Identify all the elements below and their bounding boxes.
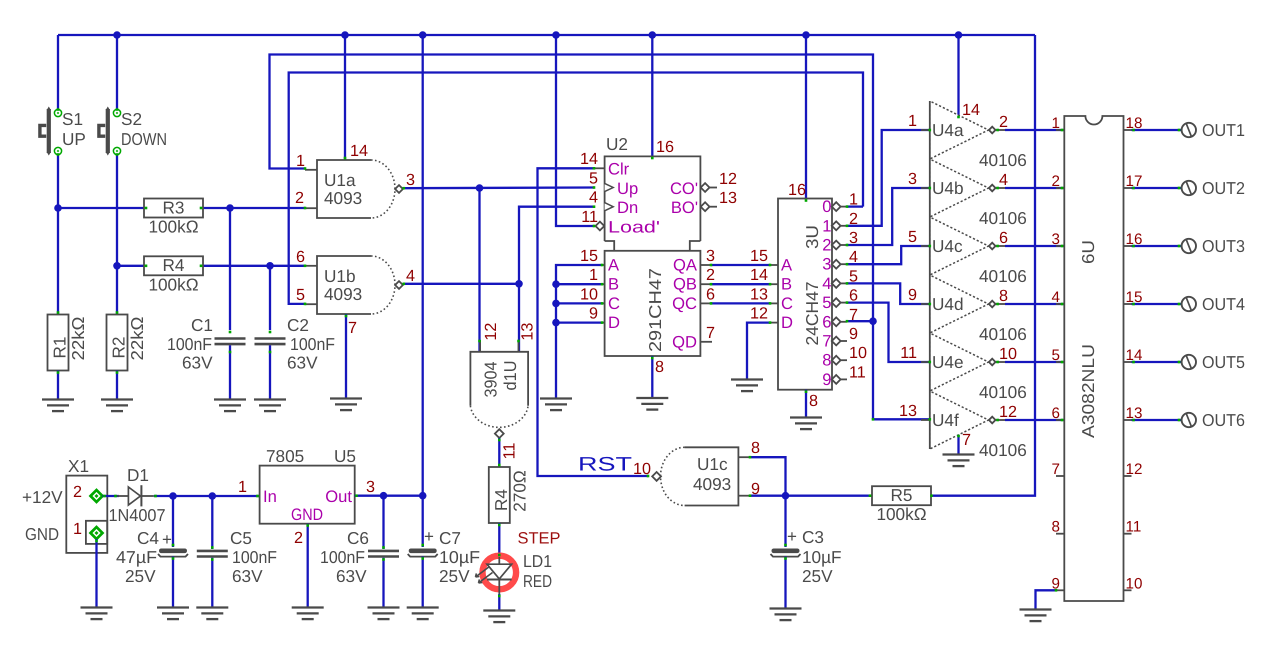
nand gate U1b [305,256,403,314]
inverter U4e 40106 [900,333,1027,402]
svg-text:+: + [162,530,172,549]
node rail junction +5V feed [419,31,427,39]
output pad OUT2 [1132,178,1246,198]
wire QC to C [711,302,770,304]
node C5 junction [209,492,217,500]
svg-text:14: 14 [350,142,368,160]
inverter U4b 40106 [908,159,1027,228]
svg-text:12: 12 [999,403,1017,421]
svg-text:STEP: STEP [518,530,561,548]
wire U1b out [403,283,519,285]
svg-text:11: 11 [581,208,598,226]
wire U4c out to U6 [1005,245,1064,247]
svg-text:9: 9 [908,286,917,304]
svg-text:8: 8 [999,287,1008,305]
svg-text:A: A [608,256,620,275]
svg-text:100kΩ: 100kΩ [876,504,926,524]
wire Dn riser [519,207,594,352]
svg-text:QC: QC [672,294,697,313]
node U2 C junction [552,300,560,308]
wire U2 pin16 drop [651,35,653,156]
wire U4a pin14 drop [957,35,959,116]
svg-text:100nF: 100nF [232,547,277,567]
svg-text:R1: R1 [50,337,70,359]
wire C6 drop [382,496,384,549]
svg-text:7: 7 [822,332,831,351]
svg-text:8: 8 [809,392,818,410]
svg-text:10: 10 [849,344,867,362]
node C4 junction [169,492,177,500]
output pad OUT1 [1132,120,1246,140]
svg-text:10µF: 10µF [802,547,842,567]
node rail junction U3-16 [802,31,810,39]
wire U1a out to U2 Up [403,186,594,189]
wire U2 D stub [556,321,602,323]
ground LD1 [483,611,515,623]
wire U3 out5 to U4e [847,303,930,362]
wire S2 to R4 row [116,155,118,315]
svg-text:7: 7 [348,319,357,337]
connection ticks [57,108,1181,597]
wire U4e out to U6 [1005,361,1064,363]
wire C7 drop [422,496,424,547]
svg-text:1: 1 [589,266,598,284]
svg-text:C2: C2 [287,315,309,335]
ground C7 [407,608,439,620]
svg-text:U1a: U1a [324,170,356,190]
ground C3 [770,609,802,621]
wire +5V top rail [58,34,1035,36]
svg-text:OUT4: OUT4 [1202,294,1245,314]
svg-text:22kΩ: 22kΩ [127,316,147,360]
svg-text:14: 14 [962,101,980,119]
svg-text:A: A [781,256,793,275]
net label STEP [518,530,561,548]
inverter U4d 40106 [908,275,1027,344]
svg-text:DOWN: DOWN [121,129,167,149]
svg-text:10: 10 [580,286,598,304]
svg-text:UP: UP [62,129,86,149]
svg-text:U4d: U4d [932,294,964,314]
node C6 junction [380,492,388,500]
wire U1d pin12 drop [478,188,480,352]
wire U4f pin7 [957,435,959,454]
svg-text:OUT6: OUT6 [1202,410,1245,430]
svg-text:3: 3 [908,170,917,188]
svg-text:4093: 4093 [324,188,362,208]
svg-text:12: 12 [719,170,737,188]
svg-text:3: 3 [406,171,415,189]
svg-text:C: C [781,294,793,313]
resistor R5 [872,485,931,524]
svg-text:GND: GND [25,524,59,544]
svg-text:3: 3 [366,478,375,496]
svg-text:40106: 40106 [979,324,1027,344]
svg-text:291CH47: 291CH47 [645,268,665,352]
inverter U4f 40106 [899,391,1027,460]
svg-text:63V: 63V [232,566,263,586]
svg-text:B: B [608,275,619,294]
svg-text:C7: C7 [439,528,461,548]
svg-text:3904: 3904 [481,361,501,397]
wire R3 row left [58,207,144,209]
ground U6 pin9 [1020,610,1052,622]
svg-text:Dn: Dn [617,198,638,217]
wire R4 to LD1 [498,523,500,557]
wire S1 to R3 row [57,155,59,315]
svg-text:25V: 25V [802,566,833,586]
svg-text:GND: GND [291,505,323,524]
svg-text:7: 7 [962,431,971,449]
ground U2 ABCD [540,399,572,411]
node rail junction U2-16 [649,31,657,39]
svg-text:16: 16 [656,138,674,156]
wire R1 to ground [57,371,59,400]
svg-text:6: 6 [706,286,715,304]
svg-text:9: 9 [822,370,831,389]
wire U1b pin5 net (line3) [289,73,863,304]
svg-text:4: 4 [999,171,1008,189]
wire U2 C stub [556,302,602,304]
svg-text:7: 7 [1052,461,1060,478]
svg-text:25V: 25V [125,566,156,586]
svg-text:U4a: U4a [932,120,964,140]
resistor R4 270 [489,467,530,523]
wire U4f input [873,418,930,420]
svg-text:R5: R5 [891,485,913,505]
wire X1 to D1 [103,495,120,497]
svg-text:3: 3 [1052,231,1060,248]
regulator U5 7805 [238,446,375,547]
wire U3 out1 to U4a [847,130,930,226]
svg-text:6: 6 [296,248,305,266]
svg-text:5: 5 [822,293,831,312]
svg-text:D1: D1 [127,465,149,485]
svg-text:100nF: 100nF [320,547,365,567]
svg-text:3: 3 [822,255,831,274]
IC U6 ULN2803A [1052,115,1143,601]
svg-text:D: D [781,313,793,332]
wire S1 top drop [57,35,59,110]
svg-text:4: 4 [822,274,831,293]
wire LD1 to ground [498,594,500,610]
wire C4 to ground [172,557,174,608]
output pad OUT6 [1132,410,1246,430]
node rail junction U1a-14 [341,31,349,39]
nand gate U1d 4093 [470,323,536,460]
svg-text:25V: 25V [439,566,470,586]
wire Load [556,35,594,226]
svg-text:5: 5 [1052,347,1060,364]
svg-text:R4: R4 [491,489,511,511]
svg-text:3: 3 [706,247,715,265]
svg-text:U1b: U1b [324,266,356,286]
svg-text:10µF: 10µF [439,547,480,567]
svg-text:B: B [781,275,792,294]
svg-text:15: 15 [580,247,598,265]
svg-text:d1U: d1U [500,361,520,391]
svg-text:+12V: +12V [22,487,63,507]
diode D1 1N4007 [109,465,166,525]
svg-text:1: 1 [238,478,247,496]
wire U5 gnd [307,524,309,607]
svg-text:12: 12 [482,323,500,341]
svg-text:CO': CO' [670,179,698,198]
svg-text:24CH47: 24CH47 [802,282,822,346]
wire U3 pin8 to ground [805,390,807,417]
capacitor C6 100nF [320,528,399,586]
svg-text:8: 8 [1052,519,1060,536]
ground U4f pin7 [943,455,975,467]
svg-text:100nF: 100nF [290,334,335,354]
svg-text:11: 11 [849,363,866,381]
wire R2 to ground [116,371,118,400]
svg-text:C6: C6 [347,528,369,548]
wire QB to B [711,283,770,285]
svg-text:7805: 7805 [266,446,304,466]
wire C6 to ground [382,558,384,607]
wire C5 drop [211,496,213,549]
nand gate U1a [305,160,403,218]
svg-text:OUT2: OUT2 [1202,178,1245,198]
svg-text:S2: S2 [121,109,142,129]
wire C4 drop [172,496,174,547]
IC U3 74HC42 [750,181,867,410]
svg-text:10: 10 [999,345,1017,363]
wire U1a pin1 net (line2) [270,55,874,420]
svg-text:2: 2 [1052,173,1060,190]
svg-text:47µF: 47µF [116,547,157,567]
capacitor C5 100nF [197,528,277,586]
svg-text:6: 6 [1052,405,1060,422]
svg-text:RED: RED [523,571,552,591]
ground U3 pin8 [790,418,822,430]
wire U3 out3 to U4c [847,246,930,264]
svg-text:16: 16 [788,181,806,199]
node S1/R3 junction [54,204,62,212]
svg-text:6: 6 [999,229,1008,247]
svg-text:14: 14 [580,150,598,168]
ground C5 [196,608,228,620]
wire U1a pin14 drop [344,35,346,160]
wire U4f out to U6 [1005,419,1064,421]
svg-text:U4f: U4f [932,410,959,430]
wire S2 top drop [116,35,118,110]
svg-text:4093: 4093 [693,474,731,494]
wire +5V vertical to U5 out [422,35,424,496]
wire Clr-RST net [538,168,649,476]
wire U1c pin8 loop [750,457,786,496]
svg-text:1: 1 [1052,115,1060,132]
svg-text:4: 4 [1052,289,1060,306]
pushbutton S1 UP [40,107,86,156]
pin U1a numbers [295,142,415,207]
svg-text:+: + [787,527,797,546]
svg-text:U2: U2 [606,134,628,154]
svg-text:63V: 63V [336,566,367,586]
svg-text:R3: R3 [163,197,185,217]
wire U1b pin7 to ground [345,314,347,398]
wire R3 to U1a pin2 [203,207,305,209]
wire D1 to U5 In [154,495,260,497]
svg-text:40106: 40106 [979,208,1027,228]
svg-text:LD1: LD1 [523,551,552,571]
wire U3 out2 to U4b [847,188,930,245]
node C7 junction [419,492,427,500]
svg-text:11: 11 [501,443,519,460]
svg-text:2: 2 [706,266,715,284]
wire C3 drop [784,496,786,547]
wire R4 to U1b pin6 [203,265,305,267]
svg-text:12: 12 [750,305,768,323]
svg-text:BO': BO' [671,198,698,217]
wire U2 B stub [556,283,602,285]
svg-text:40106: 40106 [979,440,1027,460]
svg-text:OUT3: OUT3 [1202,236,1245,256]
node rail junction S2 [113,31,121,39]
wire U4a out to U6 [1005,129,1064,131]
svg-text:U4e: U4e [932,352,964,372]
svg-text:+: + [424,527,434,546]
svg-text:22kΩ: 22kΩ [68,316,88,360]
capacitor C4 47uF [116,528,188,586]
node S2/R4 junction [113,262,121,270]
wire U3 D to ground [747,323,770,379]
svg-text:1: 1 [908,112,917,130]
svg-text:2: 2 [294,529,303,547]
svg-text:U1c: U1c [697,454,728,474]
net label RST [578,454,632,476]
svg-text:100kΩ: 100kΩ [148,217,198,237]
ground C2 [254,400,286,412]
wire QA to A [711,264,770,266]
wire R4 row left [117,265,144,267]
svg-text:13: 13 [719,189,737,207]
svg-text:In: In [263,487,277,506]
svg-text:Up: Up [617,179,638,198]
svg-text:QD: QD [672,332,697,351]
svg-text:5: 5 [589,170,598,188]
svg-text:U4c: U4c [932,236,963,256]
svg-text:63V: 63V [287,353,318,373]
svg-text:8: 8 [751,439,760,457]
node R4/C2 junction [266,262,274,270]
svg-text:QB: QB [673,275,697,294]
svg-text:40106: 40106 [979,150,1027,170]
inverter U4a 40106 [908,101,1027,170]
wire U2 ABCD tie [556,265,602,398]
svg-text:0: 0 [822,197,831,216]
LED LD1 RED [476,551,553,594]
ground U5 [292,608,324,620]
resistor R4 100k [144,255,203,294]
wire U3 pin16 drop [805,35,807,199]
svg-text:40106: 40106 [979,266,1027,286]
wire U3 out6 stub [847,320,873,322]
ground R1 [42,400,74,412]
ground U3 D [731,380,763,392]
svg-text:4: 4 [589,189,598,207]
svg-text:4: 4 [406,267,415,285]
wire U6 pin9 to ground [1036,590,1057,609]
svg-text:2: 2 [73,483,82,501]
svg-text:RST: RST [578,454,632,476]
IC U2 74HC192 [580,134,737,376]
svg-text:1: 1 [73,520,82,538]
ground C6 [368,608,400,620]
svg-text:C1: C1 [191,315,213,335]
svg-text:C4: C4 [137,528,159,548]
svg-text:100nF: 100nF [167,334,212,354]
node U1b out junction [515,280,523,288]
wire C1 drop [229,208,231,330]
svg-text:Load': Load' [608,218,660,237]
svg-text:7: 7 [706,324,715,342]
node R3/C1 junction [226,204,234,212]
svg-text:QA: QA [673,256,698,275]
node U1c/C3/R5 junction [782,492,790,500]
node U2 D junction [552,319,560,327]
pin U1b numbers [296,248,415,337]
svg-text:C3: C3 [802,527,824,547]
ground C4 [157,608,189,620]
ground U2 pin8 [636,398,668,410]
pin U4f pin7 label [962,431,971,449]
svg-text:40106: 40106 [979,382,1027,402]
svg-text:Clr: Clr [608,160,630,179]
capacitor C7 10uF [408,527,480,586]
svg-text:6U: 6U [1078,240,1098,264]
wire U4d out to U6 [1005,303,1064,305]
svg-text:13: 13 [899,402,917,420]
svg-text:15: 15 [750,247,768,265]
node rail junction U4a-14 [955,31,963,39]
resistor R3 [144,197,203,236]
output pad OUT3 [1132,236,1246,256]
capacitor C2 [255,315,336,373]
wire C5 to ground [211,558,213,607]
svg-text:13: 13 [519,323,537,341]
svg-text:270Ω: 270Ω [509,470,529,512]
svg-text:2: 2 [822,236,831,255]
svg-text:2: 2 [295,189,304,207]
svg-text:10: 10 [1126,575,1143,592]
svg-text:A3082NLU: A3082NLU [1078,344,1098,438]
svg-text:8: 8 [822,351,831,370]
svg-text:9: 9 [849,325,858,343]
wire U1d out to R4 [498,438,500,467]
svg-text:X1: X1 [68,456,89,476]
svg-text:C: C [608,294,620,313]
output pad OUT5 [1132,352,1246,372]
resistor R1 [48,315,89,371]
ground R2 [101,400,133,412]
svg-text:13: 13 [750,286,768,304]
ground X1 [81,608,113,620]
svg-text:1: 1 [296,152,305,170]
node U3 out6 junction [869,317,877,325]
wire U3 out4 to U4d [847,283,930,304]
svg-text:11: 11 [1126,519,1142,536]
wire U1c pin9 to R5 [750,495,872,497]
svg-text:11: 11 [900,344,917,362]
node U2 B junction [552,280,560,288]
svg-text:8: 8 [655,358,664,376]
svg-text:U4b: U4b [932,178,964,198]
ground C1 [214,400,246,412]
wire C7 to ground [422,557,424,608]
svg-text:4093: 4093 [324,284,362,304]
